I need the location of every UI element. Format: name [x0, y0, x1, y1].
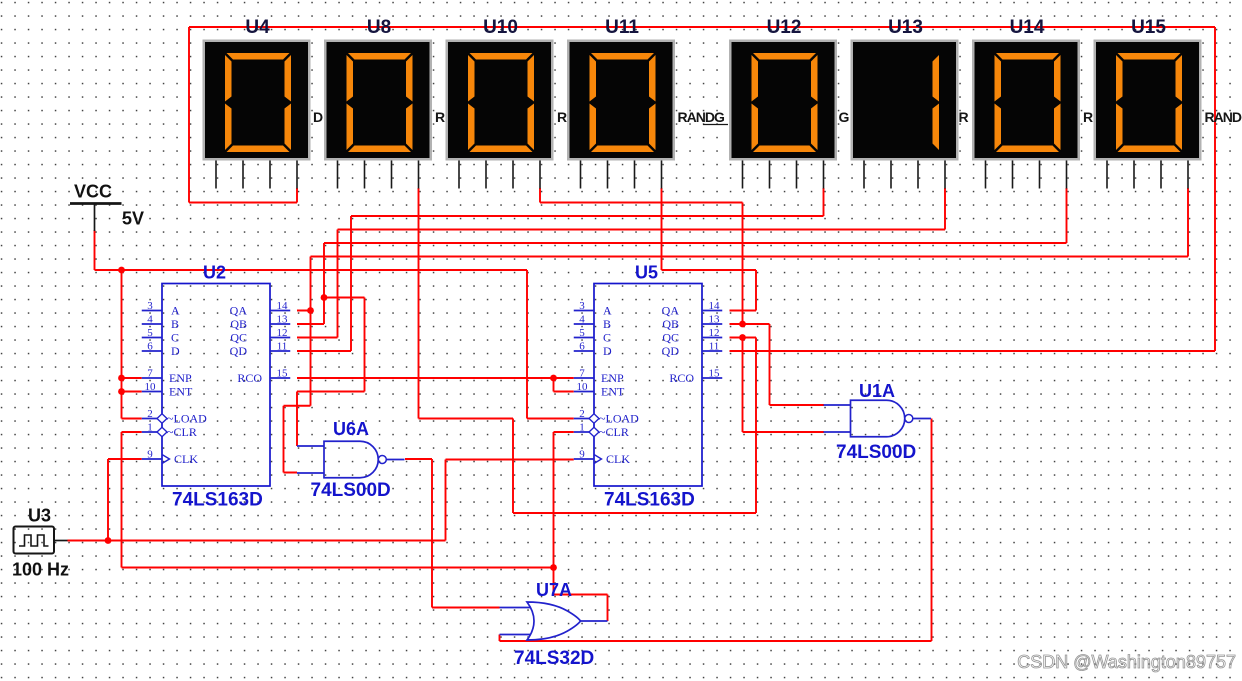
svg-text:D: D [171, 344, 180, 358]
svg-text:U7A: U7A [536, 580, 572, 600]
svg-text:A: A [603, 303, 612, 317]
svg-text:D: D [603, 344, 612, 358]
svg-text:11: 11 [709, 341, 720, 353]
svg-text:1: 1 [579, 422, 585, 434]
svg-text:R: R [435, 109, 445, 125]
svg-text:15: 15 [709, 368, 721, 380]
svg-text:U6A: U6A [333, 419, 369, 439]
svg-text:C: C [171, 330, 179, 344]
svg-text:U13: U13 [888, 17, 923, 38]
svg-text:QA: QA [662, 303, 680, 317]
svg-text:ENP: ENP [169, 371, 192, 385]
svg-text:RCO: RCO [237, 371, 262, 385]
svg-text:15: 15 [277, 368, 289, 380]
svg-text:4: 4 [147, 314, 153, 326]
svg-text:RAND: RAND [1205, 109, 1242, 125]
svg-text:12: 12 [277, 327, 288, 339]
svg-text:4: 4 [579, 314, 585, 326]
svg-text:QD: QD [662, 344, 680, 358]
svg-text:5V: 5V [122, 209, 144, 229]
svg-text:12: 12 [709, 327, 720, 339]
svg-text:U4: U4 [245, 17, 270, 38]
svg-text:3: 3 [579, 300, 585, 312]
svg-text:CSDN @Washington89757: CSDN @Washington89757 [1017, 652, 1236, 672]
svg-text:7: 7 [147, 368, 153, 380]
svg-text:10: 10 [145, 381, 157, 393]
svg-text:13: 13 [709, 314, 721, 326]
svg-text:QC: QC [662, 330, 679, 344]
svg-text:6: 6 [579, 341, 585, 353]
svg-text:RCO: RCO [669, 371, 694, 385]
svg-text:74LS163D: 74LS163D [172, 490, 263, 511]
svg-text:R: R [557, 109, 567, 125]
svg-text:14: 14 [709, 300, 721, 312]
svg-text:R: R [959, 109, 969, 125]
svg-text:~LOAD: ~LOAD [167, 411, 207, 425]
svg-text:2: 2 [147, 408, 153, 420]
svg-text:74LS00D: 74LS00D [836, 442, 916, 463]
svg-text:100 Hz: 100 Hz [12, 560, 69, 580]
svg-text:9: 9 [147, 449, 153, 461]
svg-text:2: 2 [579, 408, 585, 420]
svg-text:5: 5 [579, 327, 585, 339]
svg-text:U2: U2 [203, 263, 226, 283]
svg-text:74LS00D: 74LS00D [311, 480, 391, 501]
svg-text:U8: U8 [367, 17, 391, 38]
svg-text:U14: U14 [1010, 17, 1045, 38]
svg-text:A: A [171, 303, 180, 317]
svg-text:U12: U12 [767, 17, 802, 38]
svg-text:~CLR: ~CLR [599, 425, 629, 439]
svg-text:9: 9 [579, 449, 585, 461]
svg-text:ENP: ENP [601, 371, 624, 385]
svg-text:7: 7 [579, 368, 585, 380]
svg-text:ENT: ENT [169, 384, 193, 398]
svg-text:U3: U3 [28, 506, 51, 526]
svg-text:CLK: CLK [174, 452, 198, 466]
svg-text:U11: U11 [605, 17, 639, 38]
svg-text:VCC: VCC [74, 182, 112, 202]
svg-text:QC: QC [230, 330, 247, 344]
svg-text:CLK: CLK [606, 452, 630, 466]
svg-text:74LS163D: 74LS163D [604, 490, 695, 511]
svg-text:R: R [1083, 109, 1093, 125]
svg-text:U1A: U1A [859, 381, 895, 401]
svg-text:74LS32D: 74LS32D [514, 648, 594, 669]
svg-text:ENT: ENT [601, 384, 625, 398]
svg-text:QA: QA [230, 303, 248, 317]
svg-text:G: G [839, 109, 850, 125]
svg-text:B: B [603, 317, 611, 331]
svg-text:3: 3 [147, 300, 153, 312]
svg-text:RANDG: RANDG [678, 109, 725, 125]
svg-text:QD: QD [230, 344, 248, 358]
svg-text:C: C [603, 330, 611, 344]
svg-text:~LOAD: ~LOAD [599, 411, 639, 425]
svg-text:~CLR: ~CLR [167, 425, 197, 439]
svg-text:11: 11 [277, 341, 288, 353]
svg-text:13: 13 [277, 314, 289, 326]
svg-text:U10: U10 [483, 17, 518, 38]
svg-text:10: 10 [577, 381, 589, 393]
svg-text:5: 5 [147, 327, 153, 339]
svg-text:QB: QB [662, 317, 679, 331]
svg-text:6: 6 [147, 341, 153, 353]
svg-text:14: 14 [277, 300, 289, 312]
svg-text:QB: QB [230, 317, 247, 331]
svg-text:U15: U15 [1131, 17, 1166, 38]
svg-text:D: D [313, 109, 323, 125]
svg-text:U5: U5 [635, 263, 658, 283]
svg-text:B: B [171, 317, 179, 331]
svg-text:1: 1 [147, 422, 153, 434]
